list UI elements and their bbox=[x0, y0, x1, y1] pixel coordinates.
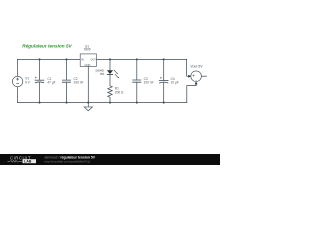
svg-text:200 Ω: 200 Ω bbox=[115, 91, 124, 95]
svg-text:GND: GND bbox=[85, 63, 91, 67]
wire voltmeter minus lead bbox=[187, 83, 196, 103]
capacitor C3 (100nF) bbox=[132, 77, 153, 85]
svg-text:LAB: LAB bbox=[24, 160, 32, 164]
svg-text:100 nF: 100 nF bbox=[144, 81, 154, 85]
wire voltmeter right stub bbox=[202, 75, 207, 77]
wire C4 branch bbox=[163, 59, 165, 102]
capacitor C4 (polarized 10µF) bbox=[159, 77, 179, 85]
wire voltmeter plus lead bbox=[187, 59, 190, 76]
svg-text:Vout 5V: Vout 5V bbox=[190, 65, 203, 69]
svg-text:Régulateur tension 5V: Régulateur tension 5V bbox=[22, 44, 72, 49]
footer credit line bbox=[45, 155, 96, 163]
svg-text:47 µF: 47 µF bbox=[47, 81, 55, 85]
circuitlab logo bbox=[8, 155, 37, 163]
ground bbox=[84, 103, 92, 111]
regulator U1 7805 bbox=[80, 44, 96, 67]
wire V1 bottom bbox=[17, 87, 19, 103]
svg-text:IN: IN bbox=[81, 57, 84, 61]
footer bar bbox=[0, 154, 220, 165]
junction node dots bbox=[38, 58, 164, 103]
wire C2 branch bbox=[66, 59, 68, 102]
wire C3 branch bbox=[136, 59, 138, 102]
capacitor C2 (100nF) bbox=[62, 77, 83, 85]
annotation title "Régulateur tension 5V" bbox=[22, 44, 72, 49]
svg-text:OUT: OUT bbox=[90, 57, 96, 61]
led D1 power led bbox=[96, 69, 120, 79]
wire LED branch bbox=[109, 59, 111, 85]
voltage source V1 bbox=[12, 76, 30, 86]
voltmeter Vout 5V bbox=[188, 65, 203, 85]
wire V1 top bbox=[17, 59, 19, 76]
svg-text:led: led bbox=[100, 72, 104, 76]
wire C1 branch bbox=[39, 59, 41, 102]
wire top rail bbox=[18, 58, 187, 60]
svg-text:100 nF: 100 nF bbox=[74, 81, 84, 85]
svg-text:10 µF: 10 µF bbox=[171, 81, 179, 85]
svg-text:http://circuitlab.com/cpwk6t8k: http://circuitlab.com/cpwk6t8kh97q2 bbox=[45, 159, 91, 163]
capacitor C1 (polarized 47µF) bbox=[35, 77, 56, 85]
svg-text:7805: 7805 bbox=[83, 48, 90, 52]
wire bottom rail bbox=[18, 102, 187, 104]
resistor R1 200Ω bbox=[108, 86, 124, 98]
wire R1 bottom bbox=[109, 97, 111, 102]
wire U1 gnd bbox=[87, 66, 89, 102]
